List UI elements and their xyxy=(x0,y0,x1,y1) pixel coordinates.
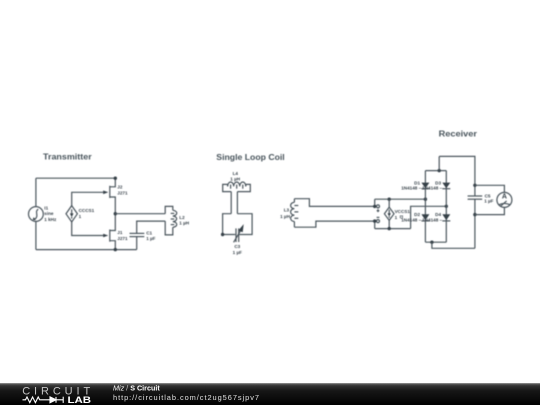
wire output node to L2 upper lead xyxy=(115,213,165,215)
svg-text:J1: J1 xyxy=(117,230,123,235)
ammeter M1 xyxy=(497,192,512,207)
inductor L3 xyxy=(291,199,299,228)
svg-text:1 µF: 1 µF xyxy=(146,236,155,241)
wire top to C5 xyxy=(439,156,475,196)
wire VCCS top rail to bridge left xyxy=(375,198,426,200)
diode D3 xyxy=(442,183,450,189)
svg-text:J2: J2 xyxy=(117,185,123,190)
diode D4 xyxy=(442,214,450,221)
svg-text:Transmitter: Transmitter xyxy=(43,152,92,162)
svg-text:Single Loop Coil: Single Loop Coil xyxy=(216,152,284,162)
wire riser to cross wire xyxy=(411,206,447,228)
wire bridge bottom edge xyxy=(425,241,446,243)
svg-text:1: 1 xyxy=(395,215,398,220)
svg-text:A: A xyxy=(502,193,507,200)
CCCS source CCCS1 xyxy=(66,206,77,222)
svg-text:1 µF: 1 µF xyxy=(484,199,493,204)
wire bridge top edge xyxy=(425,170,446,172)
wire left stem of coil pair xyxy=(230,192,232,214)
svg-text:1 µF: 1 µF xyxy=(233,250,242,255)
wire bottom rail transmitter xyxy=(36,249,137,251)
transistor J1 xyxy=(110,214,116,250)
wire L3 bottom bracket to VCCS - xyxy=(294,221,374,227)
svg-text:VCCS1: VCCS1 xyxy=(395,209,411,214)
junction dot bridge right mid xyxy=(445,205,448,208)
wire meter top branch xyxy=(475,185,505,192)
inductor L2 xyxy=(165,206,177,235)
junction dot output node xyxy=(114,212,117,215)
wire loop rectangle left xyxy=(223,214,236,235)
footer bar xyxy=(0,383,540,405)
svg-text:1 µH: 1 µH xyxy=(179,221,189,226)
VCCS source VCCS1 xyxy=(375,199,394,228)
wire bridge top stub xyxy=(438,156,440,170)
svg-text:D3: D3 xyxy=(435,180,441,185)
svg-text:D2: D2 xyxy=(414,212,420,217)
svg-text:Miz / S Circuit: Miz / S Circuit xyxy=(113,384,160,393)
svg-text:1 µH: 1 µH xyxy=(230,176,240,181)
svg-text:D4: D4 xyxy=(435,212,441,217)
svg-text:L3: L3 xyxy=(284,208,290,213)
svg-text:D1: D1 xyxy=(414,180,420,185)
inductor L4 xyxy=(223,182,251,192)
svg-text:sine: sine xyxy=(44,211,54,216)
logo doodle resistor and diode xyxy=(23,397,64,403)
variable capacitor C3 xyxy=(234,224,244,242)
svg-text:L4: L4 xyxy=(233,171,239,176)
svg-text:1N4148 –: 1N4148 – xyxy=(401,186,421,191)
diode D2 xyxy=(421,214,429,221)
junction dot VCCS + input xyxy=(373,205,376,208)
svg-text:C3: C3 xyxy=(234,244,240,249)
svg-text:1: 1 xyxy=(79,214,82,219)
junction dot VCCS - input xyxy=(373,219,376,222)
wire loop rectangle right xyxy=(237,214,252,235)
svg-text:L2: L2 xyxy=(179,215,185,220)
junction dot meter top xyxy=(473,184,476,187)
wire left rail lower (I1 to bottom rail) xyxy=(35,221,37,249)
svg-text:1N4148 –: 1N4148 – xyxy=(422,218,442,223)
junction dot meter bottom xyxy=(473,213,476,216)
junction dot bridge top xyxy=(438,169,441,172)
wire C5 bottom to bottom wire xyxy=(474,199,476,248)
wire right stem of coil pair xyxy=(236,192,238,214)
junction dot diamond top xyxy=(388,198,391,201)
svg-text:1 kHz: 1 kHz xyxy=(44,217,57,222)
wire meter bottom branch xyxy=(475,207,505,214)
wire C1 top to L2 lower lead xyxy=(137,221,166,233)
junction dot bridge left mid xyxy=(424,198,427,201)
junction dot top rail / J2 drain xyxy=(114,177,117,180)
diode D1 xyxy=(421,183,429,189)
wire CCCS1 top lead to J2 gate xyxy=(72,192,104,205)
svg-text:J271: J271 xyxy=(117,236,128,241)
wire left rail upper (I1 to top rail) xyxy=(35,178,37,206)
svg-text:J271: J271 xyxy=(117,190,128,195)
wire L3 top bracket to VCCS + xyxy=(294,199,374,207)
svg-text:Receiver: Receiver xyxy=(439,129,478,139)
svg-text:CCCS1: CCCS1 xyxy=(79,208,95,213)
svg-text:I1: I1 xyxy=(44,206,48,211)
transistor J2 xyxy=(110,178,116,214)
svg-text:1N4148 –: 1N4148 – xyxy=(422,186,442,191)
wire CCCS1 bottom lead to J1 gate xyxy=(72,222,104,236)
junction dot bridge bottom xyxy=(430,241,433,244)
wire diamond top lead xyxy=(388,199,390,207)
wire bridge right rail xyxy=(445,171,447,243)
junction dot bottom rail / J1 source xyxy=(114,248,117,251)
gate arrow J2 xyxy=(103,191,108,195)
wire VCCS bottom rail xyxy=(375,228,411,230)
junction dot loop bottom left xyxy=(221,233,224,236)
svg-text:1 µH: 1 µH xyxy=(280,214,290,219)
svg-text:LAB: LAB xyxy=(68,395,92,405)
svg-text:1N4148 –: 1N4148 – xyxy=(401,218,421,223)
wire top rail transmitter xyxy=(36,177,115,179)
wire diamond bottom lead xyxy=(388,220,390,228)
svg-text:C1: C1 xyxy=(146,230,152,235)
svg-text:http://circuitlab.com/ct2ug567: http://circuitlab.com/ct2ug567sjpv7 xyxy=(113,393,259,402)
capacitor C5 xyxy=(468,196,483,199)
wire bridge bottom stub xyxy=(432,242,475,248)
gate arrow J1 xyxy=(103,234,108,238)
capacitor C1 xyxy=(130,233,145,249)
current source I1 xyxy=(29,207,44,222)
wire bridge left rail xyxy=(424,171,426,243)
junction dot diamond bottom xyxy=(388,227,391,230)
